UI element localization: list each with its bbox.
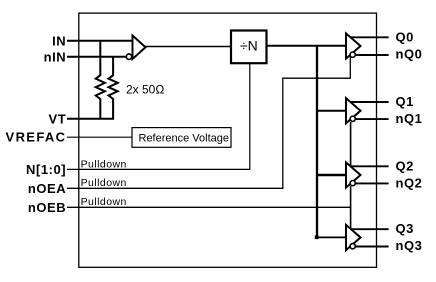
wire Q2 output [350, 165, 388, 167]
wire clock bus vertical [316, 46, 318, 238]
svg-text:Q1: Q1 [396, 94, 414, 109]
svg-text:N[1:0]: N[1:0] [26, 162, 66, 177]
svg-text:Pulldown: Pulldown [81, 177, 127, 189]
svg-text:Q0: Q0 [396, 29, 414, 44]
svg-text:nQ3: nQ3 [396, 238, 423, 253]
wire nQ3 output [355, 246, 388, 248]
resistor R (right of 2x 50 ohm) [109, 57, 118, 119]
wire nQ2 output [355, 182, 388, 184]
wire divider output to Q0 buffer [267, 45, 347, 47]
svg-text:VT: VT [48, 111, 66, 126]
output buffer Q3 [346, 225, 361, 250]
wire nIN input [67, 56, 126, 58]
svg-text:Q3: Q3 [396, 221, 414, 236]
wire VT to resistors [67, 118, 114, 120]
wire branch to Q1 buffer [317, 110, 346, 112]
wire enable link Q1 to Q2 [350, 122, 352, 167]
inversion bubble nQ2 [350, 181, 355, 186]
svg-text:Pulldown: Pulldown [81, 158, 127, 170]
wire Q1 output [350, 101, 388, 103]
svg-text:Pulldown: Pulldown [81, 196, 127, 208]
svg-text:Reference Voltage: Reference Voltage [139, 133, 230, 145]
wire nOEB control [67, 206, 351, 208]
svg-text:nQ0: nQ0 [396, 47, 423, 62]
reference voltage box [132, 128, 231, 148]
wire buffer output to divider [145, 46, 232, 48]
junction dot at Q3 branch corner [315, 235, 319, 239]
svg-text:Q2: Q2 [396, 158, 414, 173]
wire nOEA control [67, 57, 350, 188]
svg-text:nIN: nIN [44, 49, 67, 64]
wire nQ0 output [355, 54, 388, 56]
op-amp input buffer U1 (differential receiver) [133, 36, 146, 60]
wire N[1:0] control [67, 63, 250, 169]
svg-text:÷N: ÷N [240, 38, 258, 54]
svg-text:2x 50Ω: 2x 50Ω [126, 82, 164, 96]
svg-text:nQ1: nQ1 [396, 111, 423, 126]
wire IN input [67, 40, 133, 42]
svg-text:nOEA: nOEA [28, 181, 66, 196]
wire nQ1 output [355, 118, 388, 120]
inversion bubble nQ3 [350, 244, 355, 249]
wire Q0 output [350, 36, 388, 38]
output buffer Q0 [346, 33, 361, 58]
wire VREFAC [67, 136, 132, 138]
svg-text:nOEB: nOEB [28, 200, 66, 215]
block outline rectangle [79, 13, 377, 267]
inversion bubble on nIN input [126, 54, 131, 59]
wire Q3 output [350, 228, 388, 230]
svg-text:nQ2: nQ2 [396, 176, 423, 191]
output buffer Q1 [346, 98, 361, 123]
divider block U2 [231, 31, 267, 64]
resistor R (left of 2x 50 ohm) [96, 41, 105, 119]
inversion bubble nQ0 [350, 52, 355, 57]
inversion bubble nQ1 [350, 116, 355, 121]
wire branch to Q3 buffer [316, 236, 346, 238]
output buffer Q2 [346, 162, 361, 187]
svg-text:VREFAC: VREFAC [6, 129, 67, 144]
wire enable link Q2 to Q3 via nOEB [350, 186, 352, 229]
svg-text:IN: IN [52, 33, 66, 48]
wire branch to Q2 buffer [317, 174, 346, 176]
